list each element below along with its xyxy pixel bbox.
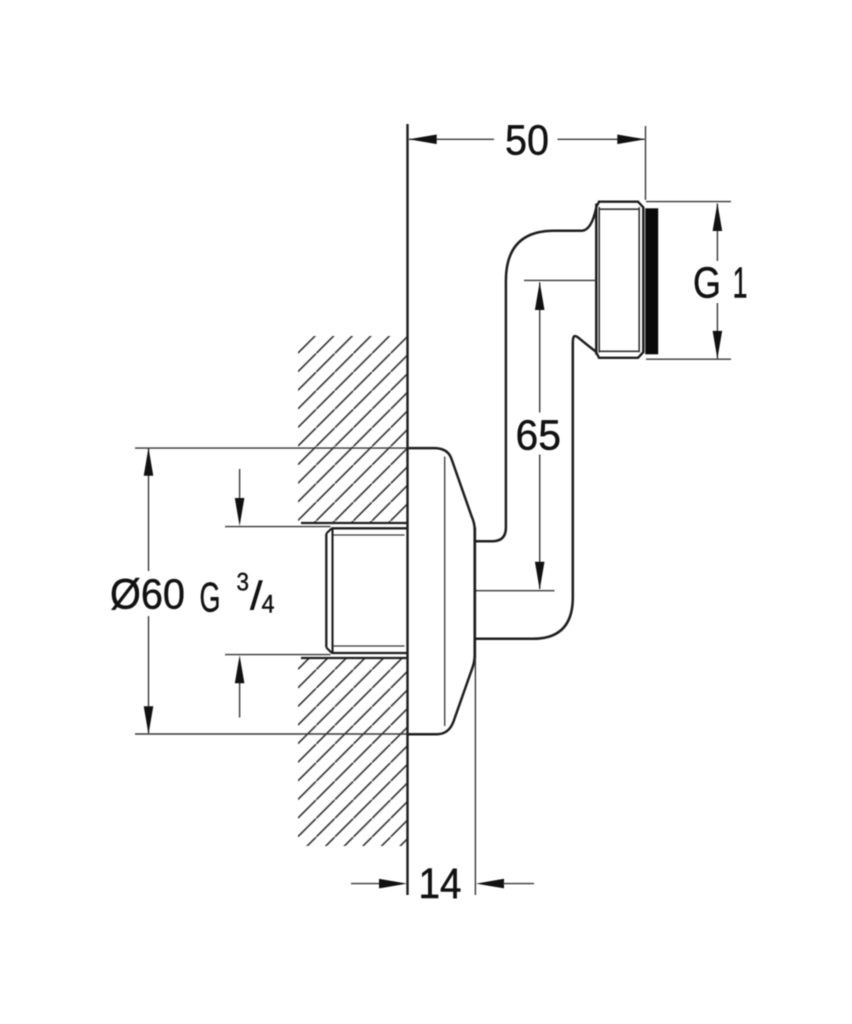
dim D60 line upper: [148, 449, 150, 572]
thread chamfer bottom: [326, 648, 332, 654]
svg-text:14: 14: [419, 860, 462, 908]
svg-text:3: 3: [237, 569, 250, 597]
dim D60 arrow up: [144, 448, 154, 476]
dim G1 extension top: [646, 201, 731, 203]
seal black band: [645, 208, 658, 354]
dim 50 arrow right: [617, 135, 645, 145]
svg-text:50: 50: [505, 117, 549, 165]
dim G34 arrow upper head: [235, 498, 245, 526]
thread G3/4 crest top: [332, 527, 407, 529]
dim D60 line lower: [148, 616, 150, 733]
dim 50 extension right: [645, 126, 647, 200]
dim 14 line left tail: [351, 883, 381, 885]
dim 65 arrow down: [535, 562, 545, 590]
nut inner chamfer top: [599, 208, 639, 210]
dim G34 arrow lower head: [235, 655, 245, 683]
wall hatch upper: [298, 336, 407, 523]
nut inner chamfer right: [638, 207, 640, 352]
pipe upper outline: union top edge, left edge, top elbow, top edge, neck fillet: [476, 208, 597, 542]
svg-text:4: 4: [262, 591, 275, 619]
flange outline: [408, 448, 475, 734]
centerline fitting axis: [524, 279, 596, 281]
dim G1 arrow down: [713, 331, 723, 359]
svg-text:G: G: [693, 259, 721, 308]
dim G34 extension top: [225, 526, 331, 528]
svg-text:65: 65: [516, 412, 562, 460]
thread G3/4 root bottom: [334, 645, 405, 647]
node wall hole top edge: [301, 522, 407, 524]
flange right face thick part of 14 extension: [474, 528, 476, 659]
dim 50 arrow left: [409, 135, 437, 145]
dim G34 extension bottom: [225, 654, 331, 656]
thread end face: [325, 534, 327, 648]
nut face line: [595, 204, 597, 355]
node wall hole bottom edge: [301, 657, 407, 659]
thread G3/4 crest bottom: [332, 652, 407, 654]
dim D60 arrow down: [144, 706, 154, 734]
dim 65 line upper: [539, 282, 541, 412]
pipe lower outline: neck bottom fillet, right edge, bottom elbow, union bottom edge: [476, 336, 597, 639]
svg-text:Ø60: Ø60: [110, 571, 185, 619]
svg-text:1: 1: [733, 259, 748, 308]
dim 50 line left: [409, 138, 494, 140]
thread end inner line: [331, 528, 333, 653]
flange face inner line: [444, 457, 446, 727]
dim 14 line right tail: [503, 883, 534, 885]
wall hatch lower: [298, 658, 407, 846]
thread chamfer top: [326, 528, 332, 533]
dim 65 arrow up: [535, 282, 545, 310]
dim G34 arrow lower shaft: [239, 682, 241, 718]
nut inner chamfer left: [598, 207, 600, 353]
dim G1 line upper: [716, 204, 718, 262]
nut inner chamfer bottom: [599, 350, 639, 352]
dim D60 extension bottom: [135, 733, 407, 735]
dim 14 arrow left: [379, 879, 407, 889]
dim 14 arrow right: [476, 879, 504, 889]
dim D60 extension top: [135, 447, 407, 449]
dim G34 arrow upper shaft: [239, 469, 241, 500]
thread G3/4 root top: [334, 534, 405, 536]
centerline union axis: [476, 590, 555, 592]
dim G1 line lower: [716, 303, 718, 359]
dim 50 line right: [558, 138, 645, 140]
wire wall face line: [406, 124, 408, 895]
dim G1 arrow up: [713, 203, 723, 231]
dim 14 extension right: [474, 658, 476, 895]
dim 65 line lower: [539, 455, 541, 590]
nut G1 outline: [596, 202, 643, 358]
dim G1 extension bottom: [646, 358, 731, 360]
svg-text:G: G: [200, 574, 221, 621]
